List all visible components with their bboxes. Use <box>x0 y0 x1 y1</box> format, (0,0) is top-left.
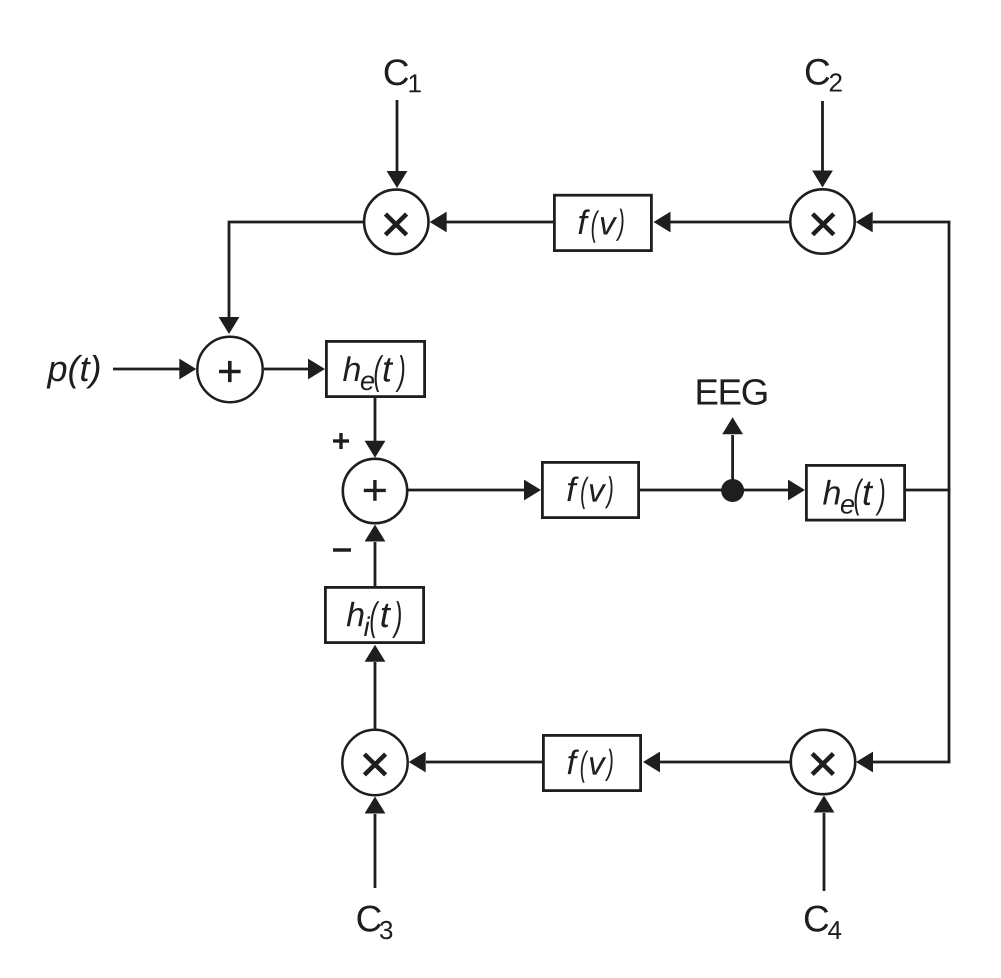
node p(t) label <box>47 355 100 389</box>
wire S2 to f(v)-mid with arrow <box>408 480 542 501</box>
wire M4 to f(v)-bottom with arrow <box>643 752 790 773</box>
wire C1 input arrow <box>387 100 408 188</box>
wire C4 to M4 with arrow <box>814 796 835 892</box>
node C4 label <box>805 906 841 940</box>
box f(v) middle <box>542 462 638 517</box>
multiplier M1 <box>364 190 428 254</box>
node EEG junction dot <box>721 479 744 502</box>
wire he1 down to adder S2 with arrow <box>365 398 386 458</box>
wire C3 to M3 with arrow <box>365 797 386 889</box>
node C1 label <box>385 59 421 92</box>
box f(v) bottom <box>543 735 640 790</box>
wire he2 to right bus <box>906 489 950 492</box>
adder S2 <box>343 459 407 523</box>
wire right bus top to M2 with arrow <box>856 212 951 233</box>
wire right bus vertical <box>948 222 951 762</box>
multiplier M4 <box>791 730 855 794</box>
wire hi(t) up to S2 with arrow <box>365 525 386 587</box>
box he(t) upper <box>326 341 424 396</box>
node C2 label <box>806 59 842 92</box>
wire M3 up to hi(t) with arrow <box>365 645 386 729</box>
node EEG label <box>698 379 767 405</box>
wire f(v)-bottom to M3 with arrow <box>409 752 542 773</box>
wire p(t) to S1 with arrow <box>113 359 196 380</box>
wire f(v)-mid to he2 with arrow, through EEG node <box>640 480 805 501</box>
wire M2 to f(v)-top with arrow <box>654 212 791 233</box>
adder S1 <box>197 337 262 402</box>
minus sign at S2 lower input <box>333 548 351 551</box>
wire C2 input arrow <box>812 101 833 188</box>
multiplier M3 <box>342 730 407 795</box>
box f(v) top <box>554 195 651 250</box>
wire f(v)-top to M1 with arrow <box>430 212 553 233</box>
node C3 label <box>358 906 393 940</box>
box he(t) right <box>806 465 904 520</box>
wire M1 to adder S1 (left then down) with arrow <box>219 222 364 334</box>
multiplier M2 <box>790 189 854 253</box>
plus sign at S2 upper input <box>333 433 349 449</box>
box hi(t) <box>325 587 423 642</box>
wire right bus bottom to M4 with arrow <box>856 752 950 773</box>
wire S1 to he1 with arrow <box>264 359 325 380</box>
wire EEG output arrow up <box>722 417 743 490</box>
